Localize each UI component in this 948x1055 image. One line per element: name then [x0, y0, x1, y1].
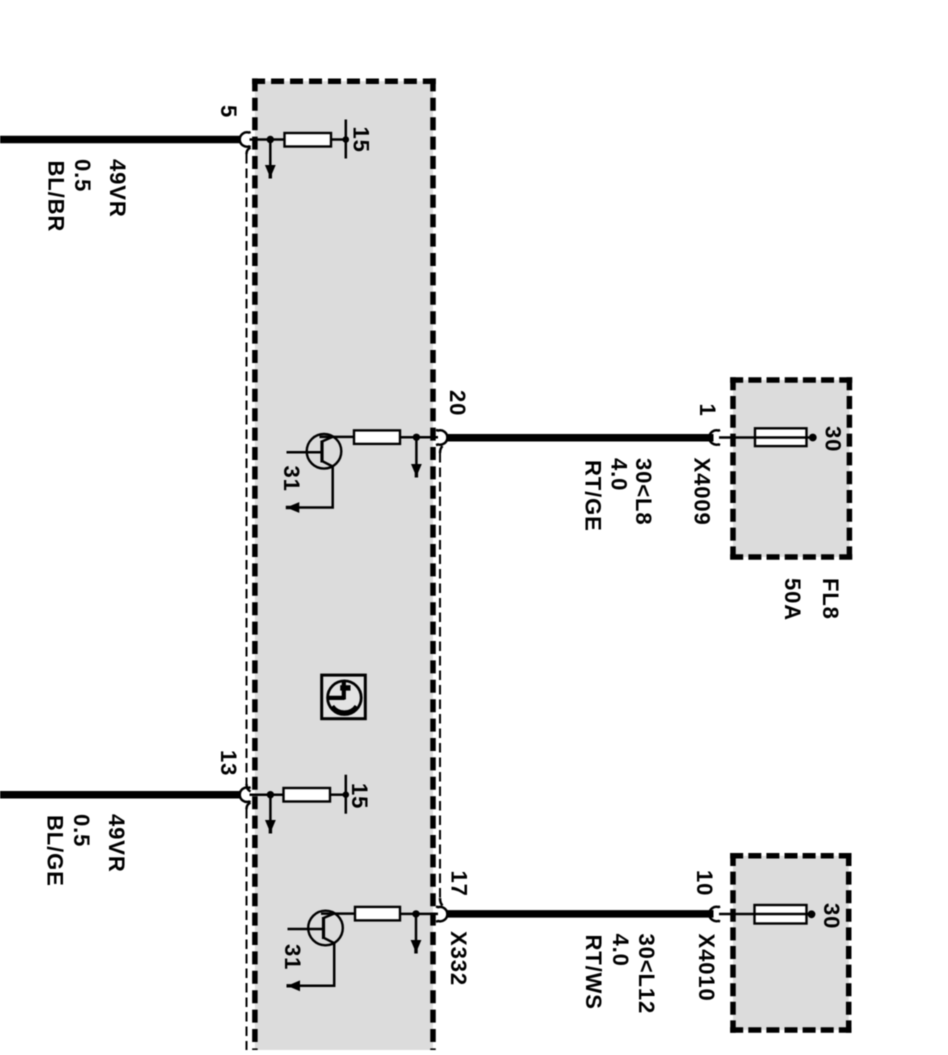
FL8 box bottom border: [730, 554, 852, 560]
svg-text:15: 15: [347, 783, 372, 809]
fuse body (30): [755, 905, 807, 924]
connector X332 strip (right, pin20 to pin17): [440, 446, 443, 453]
arrow down from pin 5 node: [269, 140, 272, 166]
svg-text:1: 1: [695, 404, 720, 417]
svg-text:49VR: 49VR: [104, 814, 129, 873]
wire resistor to terminal 15: [331, 138, 346, 141]
control unit top border (dashed): [252, 78, 436, 84]
pin 17 connector arc: [436, 907, 447, 922]
svg-text:10: 10: [692, 870, 717, 896]
pin 13 connector arc: [240, 787, 251, 802]
fuse FL8 lead line: [719, 436, 809, 439]
svg-text:4.0: 4.0: [607, 458, 632, 491]
wire pin 20 to fuse FL8: [447, 434, 714, 442]
node at terminal 15: [343, 136, 350, 143]
wire 49VR 0.5 BL/BR: [0, 136, 241, 144]
Q2 base bar: [322, 917, 325, 939]
Q2 base lead: [288, 928, 324, 931]
X4010 box bottom border: [730, 1027, 851, 1033]
FL8 box top border: [730, 377, 852, 383]
fuse FL8 terminal dot: [809, 434, 817, 442]
svg-text:31: 31: [280, 944, 305, 970]
FL8 box left border: [730, 377, 736, 560]
svg-text:30: 30: [821, 426, 846, 452]
resistor at pin 13: [284, 788, 331, 802]
node at terminal 15: [343, 791, 350, 798]
pin 1 connector arc: [709, 430, 720, 445]
resistor at pin 17: [355, 907, 400, 921]
wire pin 17 to fuse box X4010: [446, 910, 713, 918]
svg-text:17: 17: [447, 871, 472, 897]
Q2 collector: [324, 914, 335, 918]
icon left hand: [327, 696, 345, 700]
svg-text:30: 30: [819, 903, 844, 929]
control unit main box fill: [255, 81, 433, 1050]
svg-text:RT/GE: RT/GE: [581, 460, 606, 532]
svg-text:BL/BR: BL/BR: [44, 161, 69, 233]
FL8 box right border: [847, 377, 853, 560]
wire resistor to pin 20: [400, 436, 438, 439]
node at pin 17: [412, 910, 419, 917]
wire resistor to pin 17: [400, 913, 438, 916]
svg-text:20: 20: [445, 390, 470, 416]
svg-text:50A: 50A: [780, 578, 805, 621]
X4010 box top border: [730, 853, 851, 859]
X4010 box left border: [730, 853, 736, 1033]
connector strip left below pin13: [247, 803, 251, 810]
arrow to terminal 31: [286, 502, 300, 513]
wire 49VR 0.5 BL/GE: [0, 791, 240, 799]
svg-text:FL8: FL8: [818, 578, 843, 620]
svg-text:30<L8: 30<L8: [631, 458, 656, 526]
transistor Q2: [280, 911, 343, 992]
node at pin 5: [267, 136, 274, 143]
Q1 emitter: [296, 461, 333, 508]
collector wire to resistor: [321, 912, 355, 915]
svg-text:15: 15: [349, 127, 374, 153]
pin 20 connector arc: [436, 430, 447, 445]
icon top-right step: [340, 685, 350, 690]
svg-text:49VR: 49VR: [105, 159, 130, 218]
transistor Q1 body: [307, 434, 342, 469]
terminal 15 line: [345, 775, 348, 814]
icon box: [322, 675, 366, 719]
X4010 box right border: [846, 853, 852, 1033]
terminal 15 line: [345, 120, 348, 159]
node at pin 20: [413, 434, 420, 441]
icon circle: [328, 681, 362, 715]
svg-text:4.0: 4.0: [608, 934, 633, 967]
icon bottom thick arc: [332, 706, 356, 712]
node at pin 13: [267, 791, 274, 798]
control unit right border (dashed): [430, 78, 436, 1050]
Q1 base lead: [287, 451, 323, 454]
pin 10 connector arc: [709, 907, 720, 922]
fuse box FL8 fill: [733, 380, 849, 557]
svg-text:X4009: X4009: [690, 458, 715, 526]
svg-text:31: 31: [279, 466, 304, 492]
Q1 collector: [322, 437, 333, 442]
svg-text:5: 5: [216, 105, 241, 118]
collector wire to resistor: [320, 436, 355, 439]
svg-text:BL/GE: BL/GE: [43, 815, 68, 887]
arrow down from pin 13 node: [269, 795, 272, 820]
resistor at pin 20: [354, 430, 400, 444]
svg-text:X332: X332: [446, 931, 471, 986]
svg-text:RT/WS: RT/WS: [581, 935, 606, 1010]
arrow down from pin 20 node: [415, 437, 418, 464]
pin 13 line: [250, 793, 285, 796]
pin 5 line: [250, 138, 286, 141]
Q1 base bar: [320, 441, 323, 463]
fuse lead line: [719, 913, 808, 916]
resistor at pin 5: [285, 133, 332, 147]
svg-text:30<L12: 30<L12: [634, 934, 659, 1015]
svg-text:X4010: X4010: [694, 934, 719, 1002]
fuse terminal dot: [808, 910, 816, 918]
icon vertical hand: [342, 682, 346, 700]
connector strip left (thin dashed), pin5 to pin13: [247, 148, 251, 155]
svg-text:0.5: 0.5: [70, 159, 95, 192]
fuse box X4010 fill: [733, 856, 849, 1030]
arrow down from pin 17 node: [415, 914, 418, 940]
transistor Q1: [279, 434, 341, 513]
fuse FL8 body: [755, 428, 807, 446]
transistor Q2 body: [308, 911, 343, 946]
arrow to terminal 31: [287, 980, 301, 991]
svg-text:0.5: 0.5: [69, 814, 94, 847]
control unit left border (dashed): [252, 78, 258, 1050]
Q2 emitter: [297, 938, 334, 986]
pin 5 connector arc: [240, 132, 251, 147]
wire resistor to terminal 15: [330, 793, 346, 796]
svg-text:13: 13: [216, 750, 241, 776]
